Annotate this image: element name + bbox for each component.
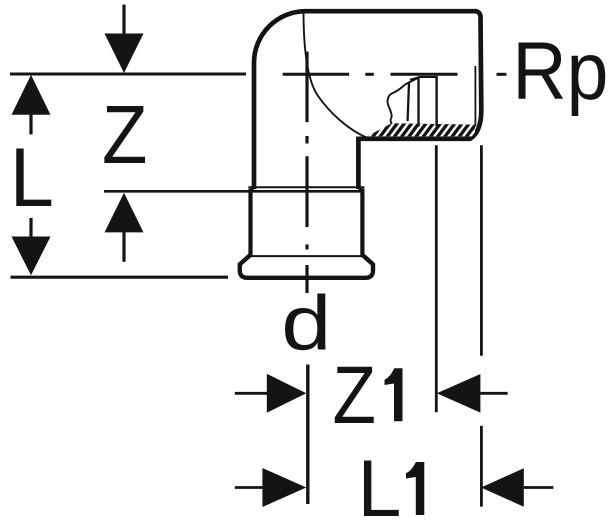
dimension line bottom (L lower reference) [11, 276, 229, 279]
thread end vertical (Z1 plane) [435, 76, 437, 126]
svg-text:L: L [358, 443, 402, 520]
thread break wavy line [387, 78, 418, 124]
svg-text:Z: Z [102, 89, 147, 181]
thread entrance chamfer line [474, 66, 476, 127]
L dimension arrows (column x=31) [12, 75, 51, 275]
label Z1: 1 glyph (custom path) [385, 368, 403, 421]
Z dimension arrows (column x=124) [105, 5, 144, 262]
svg-text:d: d [281, 279, 331, 366]
thread entry tick [410, 77, 419, 80]
centerline vertical dash-dot (d axis) [305, 52, 308, 293]
thread hatch band [366, 117, 492, 141]
svg-text:Rp: Rp [512, 25, 608, 117]
elbow body outline [254, 11, 481, 189]
press socket walls [248, 189, 252, 256]
inner bend seam curve [304, 11, 367, 138]
L1 dimension arrows [235, 468, 554, 507]
dimension line top (L/Z upper reference) [10, 73, 246, 76]
Z1 extension line right (x=436) [435, 145, 438, 412]
step jog left [251, 187, 255, 191]
L1 extension line right (x=481, interrupted at Z1 arrow row) [480, 145, 483, 355]
thread bore top line [419, 76, 438, 78]
thread inner vertical [408, 83, 409, 122]
Z1 dimension arrows [235, 374, 508, 413]
svg-text:L: L [10, 132, 54, 225]
socket step lines [248, 186, 364, 188]
thread start vertical [417, 77, 419, 127]
bead top line [251, 255, 363, 257]
dimension line mid (Z lower reference, collinear with socket step) [104, 190, 362, 193]
Z1/L1 extension line center (x=307) [306, 365, 309, 505]
svg-text:Z: Z [333, 350, 376, 441]
press bead (O-ring bulge) [240, 255, 373, 278]
step jog right [358, 187, 362, 191]
label L1: 1 glyph (custom path) [406, 462, 424, 515]
centerline horizontal dash-dot (Rp axis) [283, 73, 507, 76]
